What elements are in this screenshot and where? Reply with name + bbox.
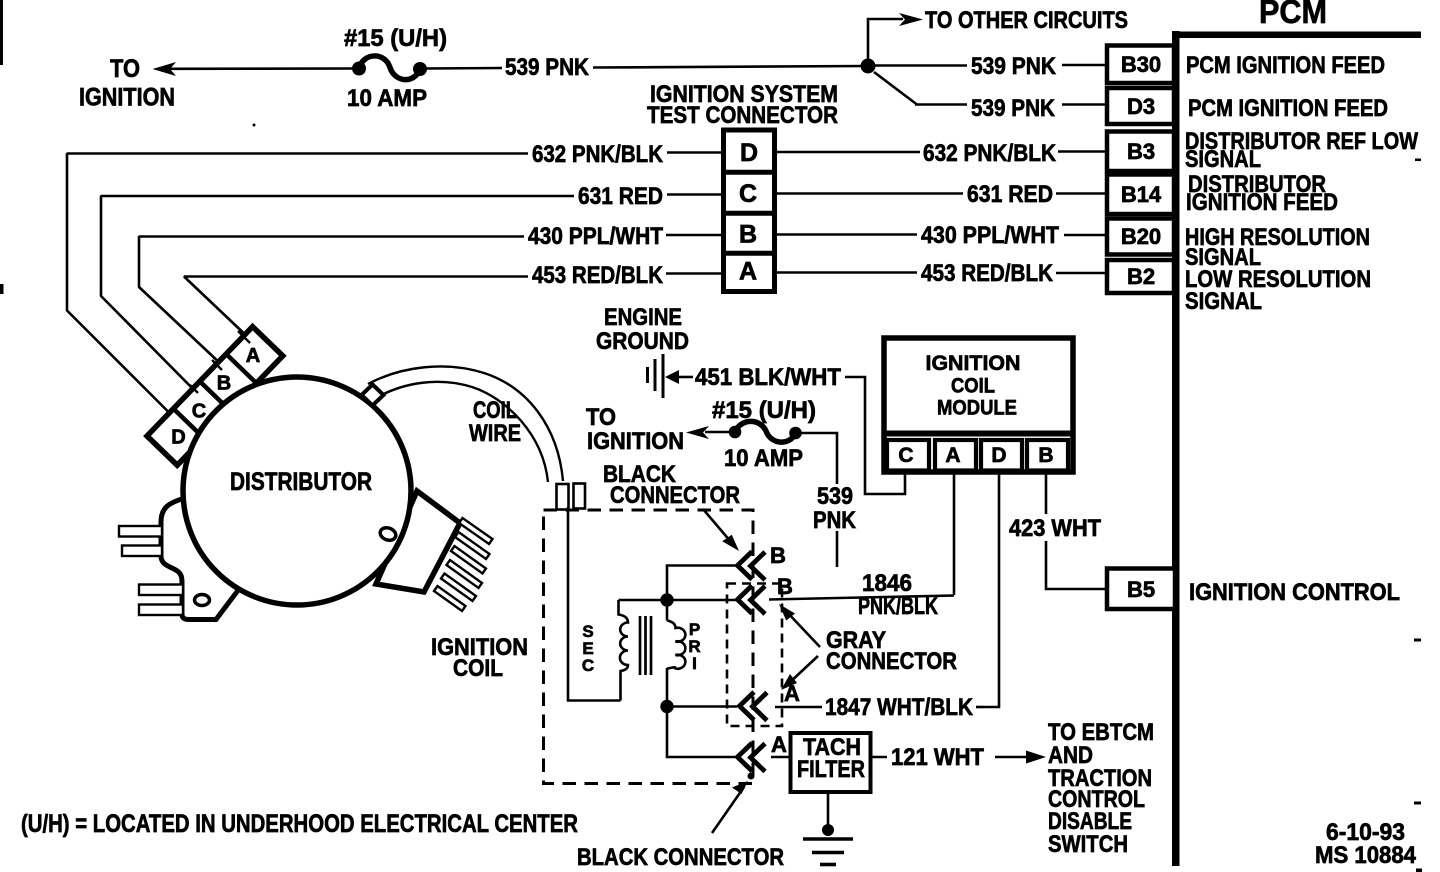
svg-text:I: I <box>692 654 697 673</box>
svg-text:631 RED: 631 RED <box>967 181 1053 208</box>
svg-text:451 BLK/WHT: 451 BLK/WHT <box>695 364 841 391</box>
svg-text:PCM IGNITION FEED: PCM IGNITION FEED <box>1186 52 1385 79</box>
svg-text:MODULE: MODULE <box>937 397 1017 420</box>
svg-text:SIGNAL: SIGNAL <box>1185 288 1262 315</box>
svg-text:TO OTHER CIRCUITS: TO OTHER CIRCUITS <box>925 7 1128 34</box>
svg-text:MS 10884: MS 10884 <box>1315 842 1417 869</box>
svg-text:IGNITION: IGNITION <box>926 352 1021 375</box>
svg-text:10 AMP: 10 AMP <box>724 445 803 472</box>
svg-text:IGNITION: IGNITION <box>587 428 684 455</box>
svg-text:B: B <box>1038 444 1053 467</box>
svg-text:B14: B14 <box>1121 182 1162 207</box>
svg-text:CONNECTOR: CONNECTOR <box>610 482 740 509</box>
svg-text:539 PNK: 539 PNK <box>971 53 1057 80</box>
svg-text:B2: B2 <box>1127 264 1155 289</box>
svg-text:631 RED: 631 RED <box>578 183 663 210</box>
svg-text:A: A <box>945 444 960 467</box>
svg-text:C: C <box>739 180 757 208</box>
svg-text:B: B <box>777 574 793 599</box>
svg-text:IGNITION: IGNITION <box>79 84 175 112</box>
svg-text:D3: D3 <box>1127 94 1155 119</box>
svg-text:IGNITION CONTROL: IGNITION CONTROL <box>1189 579 1400 606</box>
svg-text:A: A <box>771 732 787 757</box>
svg-text:BLACK CONNECTOR: BLACK CONNECTOR <box>577 844 784 871</box>
svg-text:TO: TO <box>110 55 140 83</box>
svg-text:B3: B3 <box>1127 139 1155 164</box>
svg-text:TEST CONNECTOR: TEST CONNECTOR <box>647 102 838 129</box>
svg-text:10 AMP: 10 AMP <box>347 85 427 112</box>
svg-text:DISTRIBUTOR: DISTRIBUTOR <box>230 468 372 496</box>
svg-text:COIL: COIL <box>453 655 503 682</box>
svg-text:C: C <box>192 401 206 423</box>
svg-text:B20: B20 <box>1121 224 1161 249</box>
svg-text:PNK/BLK: PNK/BLK <box>858 593 938 620</box>
svg-text:C: C <box>582 656 594 675</box>
svg-text:453 RED/BLK: 453 RED/BLK <box>532 262 664 289</box>
svg-text:D: D <box>171 427 185 449</box>
svg-text:WIRE: WIRE <box>469 420 521 447</box>
svg-text:A: A <box>739 258 757 286</box>
svg-text:B: B <box>217 373 231 395</box>
svg-text:423 WHT: 423 WHT <box>1009 515 1101 542</box>
svg-text:C: C <box>898 444 913 467</box>
svg-text:COIL: COIL <box>951 375 995 398</box>
svg-text:SIGNAL: SIGNAL <box>1185 146 1261 173</box>
svg-text:FILTER: FILTER <box>797 756 865 783</box>
svg-text:A: A <box>246 345 260 367</box>
svg-text:D: D <box>991 444 1006 467</box>
svg-text:D: D <box>740 139 758 167</box>
svg-text:1847 WHT/BLK: 1847 WHT/BLK <box>825 694 974 721</box>
svg-text:632 PNK/BLK: 632 PNK/BLK <box>923 140 1057 167</box>
svg-text:SWITCH: SWITCH <box>1048 831 1128 858</box>
svg-text:GROUND: GROUND <box>596 328 689 355</box>
svg-text:#15 (U/H): #15 (U/H) <box>712 397 816 424</box>
svg-text:430 PPL/WHT: 430 PPL/WHT <box>528 223 663 250</box>
svg-text:B: B <box>770 543 786 568</box>
svg-text:453 RED/BLK: 453 RED/BLK <box>921 260 1054 287</box>
svg-text:430 PPL/WHT: 430 PPL/WHT <box>921 222 1059 249</box>
svg-text:(U/H) = LOCATED IN UNDERHOOD E: (U/H) = LOCATED IN UNDERHOOD ELECTRICAL … <box>21 810 578 838</box>
svg-text:PCM IGNITION FEED: PCM IGNITION FEED <box>1188 95 1388 122</box>
svg-text:B30: B30 <box>1121 52 1161 77</box>
svg-text:B5: B5 <box>1127 577 1155 602</box>
svg-text:PCM: PCM <box>1259 0 1327 30</box>
svg-text:IGNITION FEED: IGNITION FEED <box>1186 189 1338 216</box>
svg-text:632 PNK/BLK: 632 PNK/BLK <box>532 141 664 168</box>
svg-text:TO: TO <box>586 404 616 431</box>
svg-text:B: B <box>739 221 757 249</box>
svg-text:539: 539 <box>817 483 853 510</box>
svg-text:ENGINE: ENGINE <box>604 304 682 331</box>
svg-text:#15 (U/H): #15 (U/H) <box>344 25 447 52</box>
svg-text:121 WHT: 121 WHT <box>891 744 984 771</box>
svg-text:539 PNK: 539 PNK <box>971 95 1056 122</box>
svg-text:CONNECTOR: CONNECTOR <box>826 648 957 675</box>
svg-text:PNK: PNK <box>813 507 857 534</box>
svg-text:539 PNK: 539 PNK <box>505 54 590 81</box>
